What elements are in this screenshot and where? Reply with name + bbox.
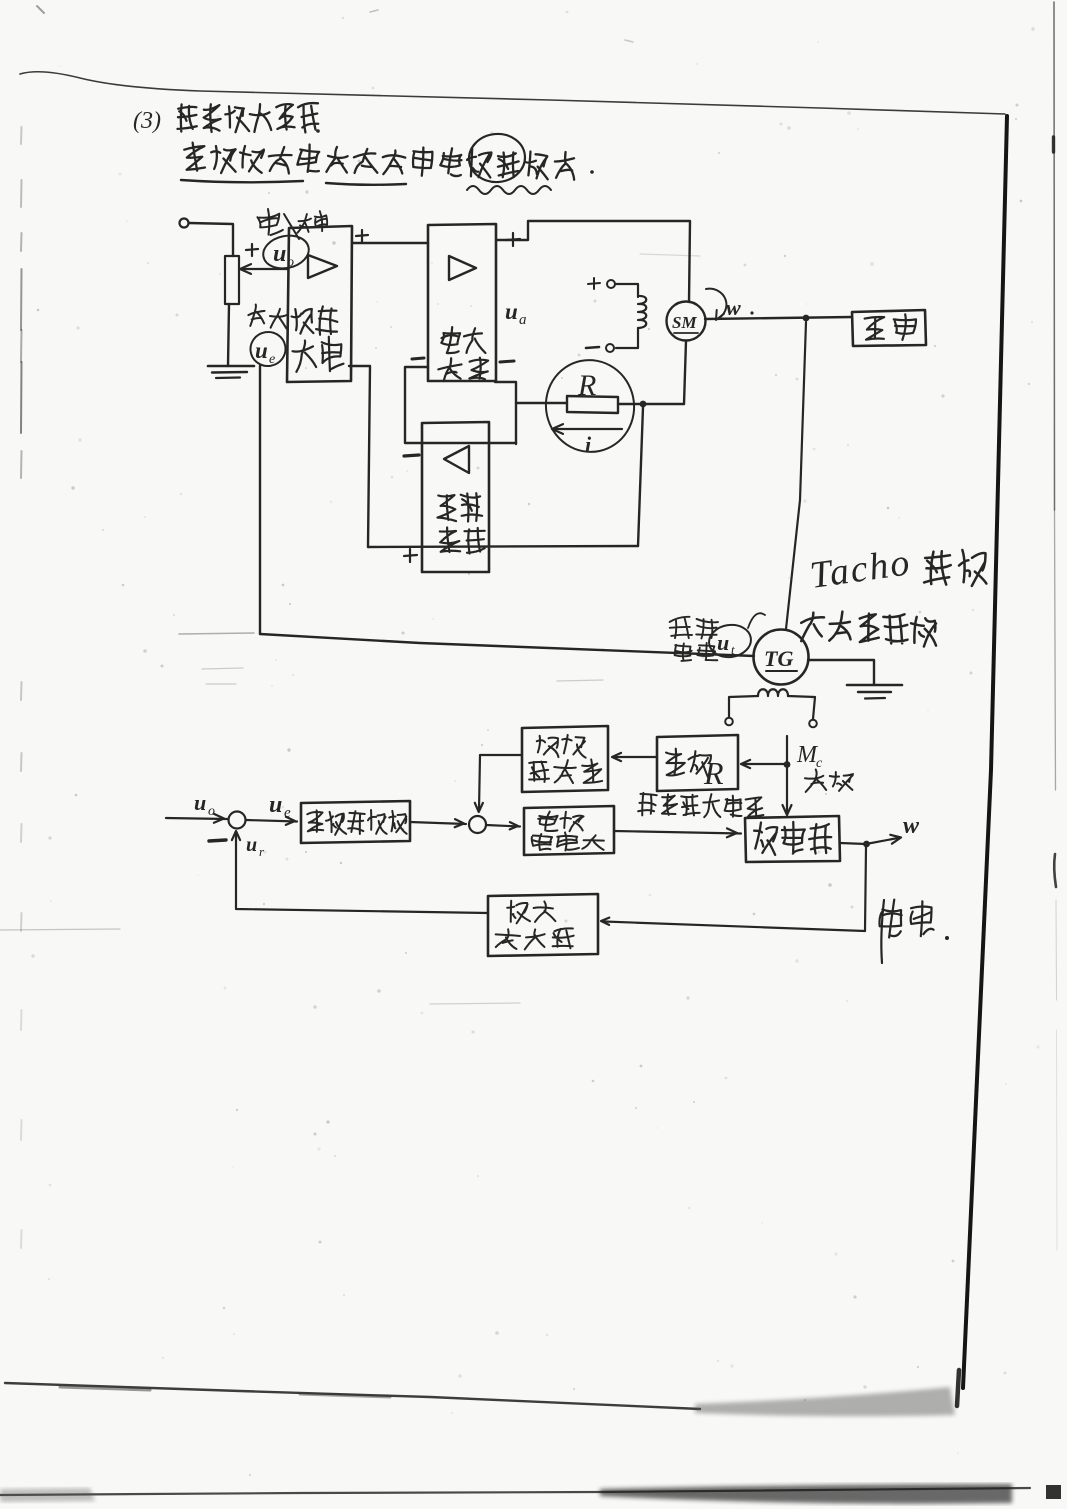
svg-text:u: u: [194, 790, 206, 815]
label hanzi 电阻 + R: [666, 748, 685, 775]
svg-text:TG: TG: [764, 646, 793, 671]
output arrow w: [866, 838, 898, 844]
svg-text:e: e: [269, 352, 275, 367]
label hanzi 电压 small: [674, 643, 693, 662]
wire SM bottom to R line: [684, 341, 686, 404]
svg-text:u: u: [246, 834, 257, 856]
op-amp block A1 (差分电压放大): [287, 226, 352, 382]
node label U0 circled: [260, 232, 312, 273]
label hanzi 闭环 (closed loop): [878, 898, 905, 939]
junction node at load wire: [803, 315, 810, 322]
svg-text:u: u: [273, 241, 286, 267]
junction node output: [863, 841, 870, 848]
wire A2 to motor loop top: [496, 221, 690, 302]
label hanzi 速度: [923, 551, 951, 585]
svg-text:i: i: [585, 432, 592, 457]
wire R-line junction down to bottom wire: [638, 407, 643, 546]
title wavy underline: [467, 186, 551, 194]
potentiometer wiper arrow: [243, 268, 288, 270]
field winding - terminal: [606, 344, 614, 352]
label hanzi 检测电枢电压: [638, 792, 657, 816]
summing junction 2: [469, 816, 486, 833]
plus sign at A1 output: [356, 235, 368, 236]
summing junction 1: [229, 812, 246, 829]
minus sign A2 bottom-left: [412, 358, 424, 359]
arrow Mc line to resistor: [744, 763, 786, 765]
title underline 1: [181, 180, 303, 182]
label hanzi 电压放大器: [307, 810, 324, 832]
bottom feedback rail: [368, 546, 638, 547]
wire Mc vertical: [786, 736, 788, 812]
svg-text:u: u: [269, 792, 282, 818]
svg-text:w: w: [903, 813, 920, 839]
svg-text:R: R: [577, 369, 596, 402]
potentiometer RP body: [225, 256, 239, 304]
label hanzi 输入电压 (input voltage): [257, 208, 283, 236]
plus sign A3 bottom: [404, 555, 417, 556]
svg-text:(3): (3): [133, 108, 161, 134]
op-amp block A2 (功率放大): [428, 224, 496, 381]
block voltage amplifier 电压放大器: [301, 801, 410, 843]
svg-text:c: c: [816, 756, 823, 771]
page bottom edge (scan): [5, 1383, 700, 1409]
minus sign A2 bottom-right: [500, 361, 514, 362]
title line 2 hanzi 把按偏差与按扰动控制结合起来: [184, 142, 205, 170]
wire Ue node down: [259, 366, 261, 634]
page right edge (scan): [963, 116, 1007, 1388]
wire stub A2 bottom right: [495, 382, 516, 444]
TG output terminals with coil: [725, 718, 733, 726]
wire junction to tacho TG: [786, 322, 806, 629]
resistor R body: [567, 396, 618, 413]
wire motor to output node: [840, 843, 866, 844]
svg-text:w: w: [726, 295, 741, 320]
block comp voltage amplifier 电压放大器 (top): [522, 726, 608, 792]
label hanzi 电压 (comp row1): [535, 736, 560, 758]
feedback wire TG to input: [260, 634, 754, 656]
label hanzi 功率 in block A2: [440, 326, 461, 354]
op-amp A2 triangle: [449, 256, 476, 280]
stray scan marks top: [37, 6, 44, 13]
wire voltage amp to summing 2: [410, 822, 466, 824]
junction dot on R line: [640, 401, 647, 408]
plus sign at wiper: [246, 249, 258, 250]
wire output node down: [865, 847, 866, 931]
page top edge (scan): [20, 72, 1005, 114]
junction dot Mc: [784, 761, 791, 768]
load box 负载: [852, 310, 926, 346]
ground (input): [208, 365, 254, 368]
label hanzi 放大 in block A3: [439, 527, 460, 553]
svg-text:SM: SM: [672, 313, 697, 332]
title circle around 结合: [467, 132, 527, 185]
arrow resistor to comp amp: [615, 756, 656, 758]
left scan edge dashes: [20, 127, 23, 144]
node label Ue circled: [248, 329, 288, 369]
right thin scan line: [1053, 2, 1056, 510]
block motor 电动机: [745, 816, 840, 862]
title line 1 hanzi 复合控制方式: [177, 104, 197, 132]
wire A1 to A2: [352, 242, 428, 244]
label hanzi 电压 in block A1: [291, 309, 313, 334]
current arrow i: [556, 428, 622, 430]
ground (TG): [847, 684, 902, 687]
input terminal: [180, 219, 189, 228]
wire TG to ground: [808, 660, 874, 684]
plus sign at A2 output: [506, 239, 520, 240]
motor SM: [667, 302, 706, 341]
rotation arrow at SM: [706, 289, 726, 319]
label hanzi 发电机 (row2): [494, 928, 520, 949]
svg-text:u: u: [505, 299, 518, 324]
label hanzi 放大器 (comp row2): [528, 761, 550, 783]
label hanzi 差额 (slanted): [247, 304, 266, 326]
block tacho 测速发电机: [488, 894, 598, 956]
scan speckle noise: [437, 303, 439, 305]
faint artifact dashes: [179, 633, 254, 634]
op-amp A1 triangle: [308, 255, 337, 278]
wire A1 bottom to bottom rail: [349, 366, 370, 547]
wire summing1 to voltage amp: [246, 820, 297, 822]
minus sign at summing 1: [209, 840, 226, 841]
wire power amp to motor: [614, 831, 741, 834]
field winding + terminal: [588, 283, 600, 284]
field winding inductor: [615, 284, 638, 297]
label hanzi 开环 (open loop): [803, 769, 826, 793]
wire compensation to summing 2: [479, 755, 522, 810]
svg-text:a: a: [519, 312, 527, 328]
svg-text:R: R: [703, 755, 724, 791]
wire R line: [516, 402, 567, 404]
inner wire rectangle below A2: [405, 367, 516, 443]
label hanzi 放大 in block A1: [292, 340, 317, 372]
svg-text:t: t: [731, 642, 735, 657]
input arrow to summing junction: [166, 818, 227, 819]
bottom scan line 2: [0, 1488, 1030, 1495]
title underline 2: [326, 183, 406, 185]
label hanzi 功率 (row1): [537, 810, 560, 832]
svg-text:u: u: [717, 630, 729, 655]
label Ut circled: [707, 622, 753, 660]
label hanzi 放大器 (row2): [531, 833, 553, 851]
label hanzi 测速发电机: [800, 612, 825, 641]
op-amp block A3 (电压放大 feedback): [422, 422, 489, 572]
label hanzi 电动机: [752, 822, 779, 855]
block resistor 电阻R: [657, 735, 738, 791]
minus sign A3 left: [404, 455, 419, 456]
label hanzi 反馈 (feedback): [669, 616, 692, 639]
svg-text:o: o: [208, 804, 215, 819]
label hanzi 负载: [864, 316, 885, 340]
label hanzi 电压 in block A3: [437, 494, 458, 521]
svg-text:u: u: [255, 338, 268, 363]
tacho generator TG: [754, 630, 809, 685]
wire tacho to summing 1: [236, 833, 488, 913]
block power amplifier 功率放大器: [524, 806, 614, 855]
wire input to potentiometer: [189, 223, 233, 256]
wire potentiometer to ground: [228, 304, 229, 366]
wire summing2 to power amp: [486, 825, 520, 827]
wire output to tacho block: [604, 922, 865, 932]
ellipse around R: [537, 352, 642, 460]
label hanzi 测速 (row1): [507, 900, 530, 923]
wire SM to load: [705, 317, 852, 319]
op-amp A3 triangle (left): [444, 446, 469, 473]
label hanzi 放大 in block A2: [437, 357, 463, 381]
